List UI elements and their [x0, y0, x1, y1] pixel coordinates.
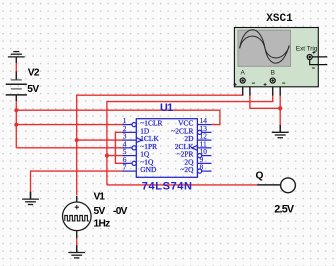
svg-text:7: 7: [123, 163, 127, 172]
wire black stub V1 top: [76, 196, 78, 203]
wire V1 bottom to ground: [76, 238, 78, 246]
svg-text:5V: 5V: [27, 84, 39, 95]
wire black stub scope A+: [242, 83, 244, 96]
wire black stub scope B+: [272, 83, 274, 96]
wire V2 positive rail riser: [15, 101, 17, 148]
wire clock branch to pin 3 (1CLK): [77, 139, 124, 141]
wire V2 to pin 4 (~1PR): [16, 147, 123, 149]
ground symbol for V2 (flipped, above battery): [8, 52, 25, 57]
svg-text:~2Q: ~2Q: [180, 165, 194, 174]
probe Q circle: [281, 178, 296, 193]
pin 3 stub 1CLK: [123, 139, 137, 141]
wire black stub V1 bottom: [76, 230, 78, 238]
svg-text:GND: GND: [140, 165, 157, 174]
svg-text:XSC1: XSC1: [266, 13, 293, 25]
svg-text:B: B: [271, 70, 275, 77]
wire black stub Q probe: [257, 184, 280, 186]
svg-text:V1: V1: [94, 192, 106, 203]
pin 12 stub 2D: [197, 139, 211, 141]
wire scope A- to ground junction: [250, 95, 280, 108]
battery V2: [6, 80, 27, 95]
wire black stub V1 ground: [76, 245, 78, 252]
ground symbol scope A-/B-: [272, 125, 289, 138]
chip left pin stubs: [123, 123, 142, 172]
svg-text:Ext Trig.: Ext Trig.: [296, 45, 319, 52]
wire black stub scope ground: [279, 125, 281, 132]
junction clock riser / pin3 branch: [75, 138, 79, 142]
wire Q to probe: [107, 184, 258, 186]
svg-text:74LS74N: 74LS74N: [142, 180, 193, 192]
chip pin numbers right: [200, 116, 208, 172]
junction V2 rail / pin1 branch: [14, 123, 18, 127]
junction Q riser / pin5 branch: [105, 154, 109, 158]
chip pin names right column: [171, 119, 194, 175]
terminal B: [264, 78, 286, 86]
chip right pin stubs: [192, 125, 212, 174]
wire black stub scope A-: [245, 81, 250, 96]
chip pin names left column: [140, 119, 162, 175]
wire ~1Q to 1D feedback: [115, 132, 123, 163]
scope screen waveform big: [240, 30, 290, 63]
pin 6 stub ~1Q: [123, 162, 132, 164]
wire Q net riser pin5 to scope B: [107, 95, 273, 185]
pin 9 stub 2Q: [197, 162, 211, 164]
wire V2 ground link: [15, 63, 17, 72]
svg-text:8: 8: [200, 163, 204, 172]
svg-text:V2: V2: [28, 68, 40, 79]
ground symbol bottom-left (chip GND pin 7): [22, 192, 39, 205]
wire pin 7 GND to ground: [31, 171, 124, 192]
wire black stub V2 ground: [15, 57, 17, 63]
chip pin numbers left: [123, 116, 127, 172]
pin 5 stub 1Q: [123, 155, 137, 157]
wire black stub V2 top: [15, 71, 17, 79]
scope screen waveform small: [240, 36, 290, 58]
oscilloscope XSC1 body: [234, 28, 318, 87]
wire Q branch to pin 5 (1Q): [107, 155, 124, 157]
clock source V1: [63, 202, 92, 231]
junction scope A- B- ground: [278, 106, 282, 110]
terminal Ext Trig: [307, 51, 327, 68]
wire black stub pin7 ground: [30, 192, 32, 199]
svg-text:-0V: -0V: [113, 206, 128, 217]
wire scope ground drop: [279, 108, 281, 125]
wire black stub scope B-: [275, 81, 280, 96]
wire clock net V1 to scope A: [77, 95, 243, 195]
pin 2 stub 1D: [123, 131, 137, 133]
pin 13 stub ~2CLR: [198, 130, 202, 134]
pin 4 stub ~1PR: [123, 147, 132, 149]
pin 7 stub GND: [123, 170, 137, 172]
wire V2 to pin 1 (~1CLR): [16, 124, 123, 126]
terminal A: [234, 78, 255, 86]
junction V2 rail / pin14 branch: [14, 108, 18, 112]
svg-text:1Hz: 1Hz: [94, 219, 111, 230]
wire scope B- down: [279, 95, 281, 108]
pin 10 stub ~2PR: [198, 154, 202, 158]
svg-text:Q: Q: [256, 170, 264, 181]
svg-text:U1: U1: [160, 102, 173, 114]
wire black stub V2 bottom: [15, 95, 17, 101]
ground symbol under V1: [68, 245, 85, 258]
pin 8 stub ~2Q: [198, 169, 202, 173]
svg-text:2.5V: 2.5V: [274, 204, 295, 216]
IC U1 74LS74N chip body: [136, 119, 197, 178]
svg-text:5V: 5V: [94, 206, 106, 217]
svg-text:A: A: [241, 70, 246, 77]
pin 11 stub 2CLK: [197, 147, 211, 149]
pin 14 stub VCC: [197, 124, 211, 126]
wire VCC branch to pin 14: [16, 110, 220, 124]
pin 1 stub ~1CLR: [123, 124, 132, 126]
